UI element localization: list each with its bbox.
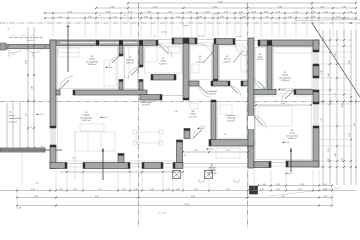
terrace sliding door lines [183, 163, 248, 165]
wall cap [211, 81, 213, 86]
furniture kamra shelf [241, 48, 246, 72]
junction cap gardrob east [139, 40, 143, 45]
inner finish line szoba3 [274, 47, 313, 89]
tick row4 [234, 17, 236, 19]
svg-text:1,90: 1,90 [226, 150, 230, 152]
column symbol 2 [205, 171, 213, 179]
window core top1 b [100, 42, 137, 44]
right tick [329, 63, 331, 65]
terrace door lines 2b [130, 166, 142, 168]
left tick a [27, 147, 29, 149]
inner finish line gardrob [125, 47, 138, 89]
interior wall corridor north b [211, 81, 230, 86]
section arrow mark [213, 13, 216, 15]
svg-text:0,55: 0,55 [59, 189, 63, 191]
terrace door lines 1 [67, 163, 83, 165]
svg-text:0,75: 0,75 [276, 184, 280, 186]
extension line top [260, 14, 262, 37]
room label kamra [223, 56, 231, 63]
wall cap [128, 163, 130, 169]
extension line right [320, 45, 352, 47]
extension line right [320, 39, 352, 41]
extension line top [234, 14, 236, 37]
threshold mark 1 [199, 179, 204, 182]
wall cap [183, 98, 189, 100]
svg-text:kamra: kamra [224, 58, 231, 61]
wall cap top1 end [156, 40, 158, 46]
tick row4 [260, 17, 262, 19]
svg-text:4,0: 4,0 [8, 28, 10, 30]
opening line top 1b [158, 42, 172, 44]
extension line right [320, 103, 352, 105]
extension line top [247, 14, 249, 37]
svg-text:1,75: 1,75 [335, 93, 337, 97]
right dim line [329, 30, 331, 185]
door wc lower arc [200, 86, 211, 97]
right dim line [343, 30, 345, 185]
tick row2 [332, 7, 334, 9]
tick row2 [183, 7, 185, 9]
nappali etkezo wall vertical [177, 140, 183, 163]
svg-text:0,50: 0,50 [323, 189, 327, 191]
door nappali etkezo arc [193, 126, 206, 139]
svg-text:0,85: 0,85 [198, 16, 202, 18]
wall cap [209, 140, 211, 147]
tick row under piers [66, 171, 68, 173]
wall cap [313, 64, 319, 66]
interior wall wc kamra divider [213, 44, 218, 81]
inner finish line szoba1 [58, 47, 118, 89]
right tick [350, 96, 352, 98]
outer wall right seg3 [313, 90, 319, 104]
extension line top [226, 14, 228, 37]
tick row4 [240, 17, 242, 19]
extension line right [320, 89, 352, 91]
left tick b [33, 100, 35, 102]
right tick [343, 166, 345, 168]
threshold mark 2 [234, 179, 239, 182]
room label eloter [189, 111, 197, 118]
furniture furdo sink [168, 46, 180, 53]
room label terasz left [9, 112, 22, 124]
svg-text:0,60: 0,60 [134, 189, 138, 191]
svg-text:±0,00: ±0,00 [281, 89, 287, 91]
svg-text:40: 40 [32, 53, 34, 55]
extension line top [278, 14, 280, 37]
section line A vertical [67, 25, 69, 72]
fence wall top left [0, 45, 50, 49]
wall cap [139, 80, 143, 82]
window right 1c [317, 52, 319, 64]
right tick [322, 166, 324, 168]
door terasz lejarat leaf [159, 44, 169, 54]
right tick [329, 39, 331, 41]
extension line bottom [285, 170, 287, 191]
svg-text:±0,00: ±0,00 [288, 173, 294, 175]
tick etkezo dim [247, 151, 249, 153]
tick bottom2 [162, 190, 164, 192]
door nappali etkezo leaf [193, 130, 202, 139]
tick bottom2 [172, 190, 174, 192]
room label nappali [80, 112, 93, 122]
section arrowhead F1 lower [102, 149, 104, 152]
svg-text:1,0: 1,0 [12, 35, 14, 37]
right tick [336, 63, 338, 65]
tick bottom3 [318, 197, 320, 199]
wall cap [160, 95, 162, 101]
door etkezo szoba4 arc [254, 117, 266, 129]
interior wall corridor north a [189, 81, 199, 86]
svg-text:1,20: 1,20 [328, 148, 330, 152]
outer wall top mid segment 1 [172, 38, 197, 44]
window right 2b [315, 78, 317, 90]
room label wc [196, 56, 204, 63]
wall cap [50, 145, 56, 147]
tick row4 [190, 17, 192, 19]
tick row4 [157, 17, 159, 19]
tick row4 [165, 17, 167, 19]
extension line right [320, 166, 352, 168]
extension line right [320, 51, 352, 53]
tick row3 [120, 12, 122, 14]
furniture furdo tub [145, 46, 157, 62]
svg-text:gardrób: gardrób [126, 59, 134, 62]
wall cap [267, 91, 272, 93]
wall cap [119, 80, 123, 82]
svg-text:0,90: 0,90 [335, 153, 337, 156]
svg-text:2,60: 2,60 [32, 86, 34, 90]
etkezo north wall [209, 140, 254, 147]
tick bottom1 [257, 185, 259, 187]
svg-text:4,50: 4,50 [95, 196, 99, 198]
level flag szoba4 [282, 141, 284, 143]
extension line bottom [82, 170, 84, 191]
outer wall top mid segment 2 [214, 39, 235, 45]
svg-text:főbejárat: főbejárat [182, 24, 190, 27]
svg-text:7,40: 7,40 [354, 123, 356, 127]
interior wall gardrob west lower [119, 80, 123, 91]
svg-text:2,55: 2,55 [26, 113, 28, 117]
section line F1 lower [102, 148, 104, 180]
extension line bottom [66, 170, 68, 191]
svg-text:helyiség: helyiség [227, 118, 236, 120]
tick row4 [95, 17, 97, 19]
right tick [329, 103, 331, 105]
terrace door lines 1b [67, 166, 83, 168]
dimension row bottom 2 [0, 190, 356, 192]
interior wall hall south [140, 95, 162, 101]
outer wall left lower pier [50, 145, 56, 169]
wall cap [151, 75, 153, 81]
wall cap [313, 76, 319, 78]
tick row under piers [162, 171, 164, 173]
section arrowhead right [290, 149, 292, 152]
extension line bottom [117, 170, 119, 191]
szoba3 south opening line b [276, 93, 294, 95]
svg-text:1,50: 1,50 [58, 16, 62, 18]
tick row4 [109, 17, 111, 19]
svg-text:szoba: szoba [289, 133, 296, 135]
tick row under piers [82, 171, 84, 173]
extension line top [204, 14, 206, 37]
door szoba3 leaf [285, 90, 295, 100]
tick row2 [127, 7, 129, 9]
svg-text:1,60 m²: 1,60 m² [196, 60, 204, 63]
inner finish line muszaki [218, 102, 247, 139]
level flag etkezo [206, 148, 208, 150]
tick bottom4 [16, 205, 18, 207]
bottom corner piece D [173, 163, 183, 169]
extension line top [240, 14, 242, 37]
outer wall top right segment [258, 40, 319, 46]
tick row1 [355, 2, 357, 4]
svg-text:4,20: 4,20 [11, 54, 15, 56]
extension line top [355, 14, 357, 37]
svg-text:1,86: 1,86 [174, 111, 178, 113]
junction cap strip05 top [267, 40, 272, 45]
wall cap [313, 90, 319, 92]
window left b [52, 128, 54, 145]
left mini dim row [9, 37, 43, 39]
wall cap [269, 162, 271, 168]
wall cap [65, 163, 67, 169]
extension line bottom [141, 170, 143, 191]
interior wall szoba south stub [56, 90, 60, 95]
right tick [350, 139, 352, 141]
inner finish nappali v [57, 97, 59, 162]
svg-text:5,60: 5,60 [281, 103, 285, 105]
right tick [343, 39, 345, 41]
right tick [329, 166, 331, 168]
interior wall muszaki west [211, 100, 216, 140]
inner finish nappali h [58, 160, 177, 162]
gate post [0, 43, 6, 50]
extension line top [52, 14, 54, 37]
door wc top leaf [204, 50, 215, 63]
svg-text:2,95 m²: 2,95 m² [223, 60, 231, 63]
dimension row bottom 1 right [258, 185, 332, 187]
door kamra lower leaf [231, 86, 239, 94]
junction cap gardrob west [119, 40, 123, 45]
right tick [329, 89, 331, 91]
svg-text:17,35: 17,35 [217, 1, 223, 3]
right tick [329, 51, 331, 53]
room label muszaki [226, 114, 236, 122]
right dim line [322, 30, 324, 185]
svg-text:1,0: 1,0 [22, 35, 24, 37]
wall cap [228, 81, 230, 86]
wall cap [177, 140, 183, 142]
svg-text:1,35: 1,35 [182, 155, 186, 157]
svg-text:1,30: 1,30 [194, 150, 198, 152]
right tick [355, 101, 357, 103]
right tick [336, 125, 338, 127]
level flag left terasz [36, 113, 38, 115]
left dim line d [12, 103, 14, 150]
svg-text:közet parketta: közet parketta [9, 117, 22, 120]
tick bottom2 [49, 190, 51, 192]
extension line top [217, 14, 219, 37]
tick bottom3 [55, 197, 57, 199]
window left c [54, 128, 56, 145]
wall cap [161, 163, 163, 169]
left dim line b [33, 27, 35, 148]
extension line bottom [312, 170, 314, 191]
wall cap [213, 79, 218, 81]
furniture szoba1 bed [58, 48, 79, 57]
window right 1b [315, 52, 317, 64]
room label szoba3 [279, 72, 292, 82]
tick row4 [212, 17, 214, 19]
window left a [50, 128, 52, 145]
wall cap [142, 163, 144, 169]
left tick b [33, 147, 35, 149]
extension line top [171, 14, 173, 37]
bottom pier B stub [118, 154, 124, 163]
tick row4 [150, 17, 152, 19]
svg-text:1,35: 1,35 [73, 189, 77, 191]
terrace door lines 4b [271, 165, 286, 167]
wall cap [119, 54, 123, 56]
diagonal dim convergence bottom right [269, 188, 340, 196]
level flag nappali [100, 116, 102, 118]
extension line bottom [162, 170, 164, 191]
inner finish line wc [191, 46, 212, 80]
left tick a [27, 74, 29, 76]
outer wall right seg2 [313, 64, 319, 78]
wall cap [83, 163, 85, 169]
tick bottom3 [331, 197, 333, 199]
svg-text:0,90: 0,90 [144, 16, 148, 18]
left dim line a [27, 27, 29, 148]
room label kozlekedo [207, 91, 218, 96]
wall cap [211, 100, 216, 102]
tick row2 [95, 7, 97, 9]
extension line top [140, 14, 142, 37]
svg-text:M = 1:100: M = 1:100 [158, 213, 166, 215]
tick row3 [140, 12, 142, 14]
tick row4 [217, 17, 219, 19]
furniture eloter cabinet [190, 103, 198, 109]
diagonal property boundary [312, 23, 360, 97]
svg-text:1,10: 1,10 [288, 16, 292, 18]
extension line bottom right [331, 186, 333, 205]
tick bottom1 [285, 185, 287, 187]
terrace door lines 3 [163, 163, 173, 165]
svg-text:25: 25 [31, 126, 33, 128]
wall cap [241, 81, 243, 86]
wall cap [258, 40, 260, 46]
wall cap [233, 39, 235, 45]
tick row3 [343, 12, 345, 14]
svg-text:1,35: 1,35 [298, 189, 302, 191]
tick row4 [284, 17, 286, 19]
door gardrob leaf [112, 57, 119, 64]
tick row3 [306, 12, 308, 14]
svg-text:4,60: 4,60 [191, 196, 195, 198]
extension line top [150, 14, 152, 37]
tick row4 [44, 17, 46, 19]
right tick [350, 166, 352, 168]
door szoba1 [60, 77, 74, 91]
door furdo arc [128, 68, 139, 79]
right tick [329, 160, 331, 162]
svg-text:1,10: 1,10 [122, 189, 126, 191]
svg-text:bejárat: bejárat [161, 31, 167, 34]
right tick [322, 39, 324, 41]
door kamra lower arc [231, 86, 241, 96]
tick row under piers [182, 171, 184, 173]
extension line bottom [55, 170, 57, 191]
interior wall corridor north c [241, 81, 248, 86]
door szoba3 arc [282, 90, 295, 103]
svg-text:±0,00: ±0,00 [285, 142, 291, 144]
svg-text:étkező: étkező [209, 166, 216, 169]
level flag szoba1 [105, 66, 107, 68]
interior wall gardrob east lower [139, 80, 143, 91]
svg-text:közlekedő: közlekedő [207, 91, 218, 93]
extension line top [95, 14, 97, 37]
terrace sliding door lines b [183, 166, 248, 168]
right tick [336, 166, 338, 168]
svg-text:1,00: 1,00 [88, 16, 92, 18]
extension line top [284, 14, 286, 37]
svg-text:2,20: 2,20 [321, 70, 323, 74]
furniture szoba3 wardrobe band [274, 47, 312, 53]
extension line right [320, 139, 352, 141]
terrace door lines 4 [271, 162, 286, 164]
svg-text:6,40 m²: 6,40 m² [159, 62, 167, 65]
svg-text:p=0: p=0 [73, 158, 76, 160]
svg-text:2,02 m²: 2,02 m² [257, 58, 264, 61]
furniture gardrob shelf [124, 47, 129, 78]
furniture szoba4 [258, 106, 292, 126]
window pier top1 [96, 40, 99, 46]
right tick [336, 77, 338, 79]
tick bottom2 [182, 190, 184, 192]
right dim line [336, 30, 338, 185]
extension line bottom left [16, 186, 18, 205]
tick row4 [295, 17, 297, 19]
tick row2 [311, 7, 313, 9]
svg-text:±0,00: ±0,00 [108, 67, 114, 69]
extension line bottom [172, 170, 174, 191]
inner finish line strip05 [256, 48, 266, 89]
svg-text:40: 40 [8, 53, 10, 55]
tick row under piers [172, 171, 174, 173]
tick bottom2 [331, 190, 333, 192]
tick bottom2 [117, 190, 119, 192]
extension line right [320, 160, 352, 162]
extension line x128 [127, 2, 129, 23]
svg-text:0,90: 0,90 [311, 16, 315, 18]
right tick [350, 160, 352, 162]
opening line top 2b [197, 42, 214, 44]
svg-text:2,95: 2,95 [349, 60, 351, 64]
left dim line c [6, 103, 8, 150]
svg-text:16,36 m²: 16,36 m² [88, 63, 97, 66]
tick row4 [332, 17, 334, 19]
tick bottom4 [55, 205, 57, 207]
section arrow mark [98, 14, 101, 16]
svg-text:1,10: 1,10 [323, 184, 327, 186]
etkezo east wall lower [248, 146, 254, 168]
room label terasz [140, 101, 152, 107]
extension line bottom [253, 170, 255, 191]
column symbol dark [250, 186, 258, 194]
svg-text:pm 040: pm 040 [236, 36, 242, 38]
outer wall right seg1 [313, 40, 319, 52]
